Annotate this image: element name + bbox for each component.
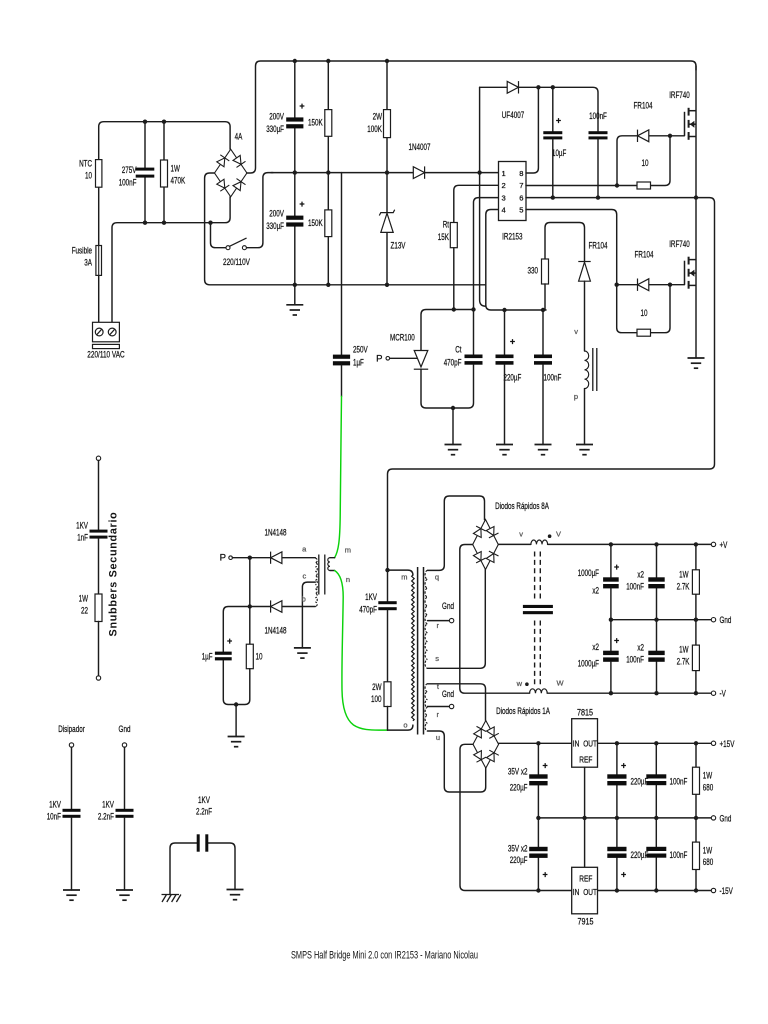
filter choke upper v-V [531, 540, 548, 544]
coupled choke core dashes lower [535, 621, 541, 688]
capacitor 200V 330uF lower [286, 216, 303, 227]
svg-text:10µF: 10µF [552, 148, 566, 159]
svg-text:35V x2: 35V x2 [508, 844, 528, 855]
regulator 7815 body [572, 719, 598, 768]
svg-text:200V: 200V [269, 209, 284, 220]
svg-text:v: v [574, 327, 578, 336]
svg-text:7915: 7915 [578, 917, 594, 928]
wire snubber bottom lead [98, 622, 100, 676]
svg-text:IRF740: IRF740 [669, 90, 690, 101]
svg-text:IN: IN [573, 739, 580, 748]
wire 35V cap upper leads [537, 743, 539, 818]
wire 150K upper top lead [327, 61, 329, 110]
svg-text:35V x2: 35V x2 [508, 767, 528, 778]
svg-text:b: b [302, 595, 306, 604]
svg-text:+: + [556, 116, 561, 126]
junction gate node high [668, 134, 672, 138]
svg-text:330µF: 330µF [266, 221, 284, 232]
svg-text:250V: 250V [353, 345, 368, 356]
svg-text:c: c [303, 572, 307, 581]
capacitor x2 100nF upper [648, 577, 664, 588]
wire feedback bottom loop [223, 660, 250, 704]
svg-text:1: 1 [502, 169, 506, 178]
wire IRF740 low vertical lead to ground [695, 198, 697, 358]
capacitor 10uF bootstrap [543, 131, 562, 139]
junction -V / 100nF [654, 691, 658, 695]
svg-text:220/110 VAC: 220/110 VAC [87, 350, 124, 361]
wire bridge left vertex down to negative bus rail [205, 173, 486, 285]
wire 100nF bottom lead to VS row [597, 139, 599, 197]
transistor IRF740 low side [685, 257, 697, 289]
wire 330uF upper bottom lead [294, 128, 296, 172]
coupled choke core dashes upper [535, 552, 541, 600]
resistor 2W 100 main snubber [384, 682, 391, 707]
wire primary ground stub [294, 285, 296, 305]
svg-text:2W: 2W [372, 682, 382, 693]
wire zener bottom lead [386, 233, 388, 285]
svg-text:10: 10 [256, 652, 263, 663]
svg-text:-15V: -15V [720, 886, 734, 897]
wire IRF740 high vertical drain-source lead [695, 66, 697, 198]
svg-text:OUT: OUT [583, 739, 597, 748]
wire 220uF lower leads [616, 818, 618, 891]
zener diode Z13V [379, 210, 394, 233]
wire low 10R loop [617, 285, 670, 333]
wire CT node horizontal [421, 310, 474, 351]
svg-text:1W: 1W [703, 771, 713, 782]
wire AC neutral: terminal-right up and along lower rail to bridge bottom [112, 197, 230, 322]
capacitor 250V 1uF [333, 355, 350, 366]
wire 150K lower bottom lead [327, 237, 329, 285]
wire 1uF bottom lead [341, 365, 343, 396]
svg-text:+: + [299, 199, 304, 209]
filter choke lower w-W [530, 689, 548, 693]
svg-text:2.2nF: 2.2nF [196, 807, 212, 818]
svg-text:+: + [542, 761, 547, 771]
svg-text:+: + [614, 636, 619, 646]
junction VS row / MOSFET source [694, 195, 698, 199]
svg-text:Z13V: Z13V [391, 241, 406, 252]
terminal snubber bottom [96, 676, 100, 680]
bridge rectifier Diodos Rapidos 1A [473, 721, 499, 769]
ground gnd-cap [116, 890, 133, 900]
wire aux Gnd rail [538, 817, 711, 819]
junction aux Gnd / 220uF [615, 816, 619, 820]
svg-text:1N4007: 1N4007 [409, 142, 431, 153]
switch lever 220/110V [230, 238, 247, 246]
resistor 10 high side [637, 182, 651, 189]
wire +V rail [548, 543, 712, 545]
terminal P [229, 556, 233, 560]
wire 2W100K bottom lead [386, 138, 388, 173]
junction +15 / 100nF [654, 741, 658, 745]
svg-text:1KV: 1KV [365, 592, 377, 603]
svg-text:5: 5 [519, 206, 523, 215]
svg-text:4A: 4A [235, 132, 243, 143]
svg-text:Fusible: Fusible [72, 246, 92, 257]
main secondary upper q-r-s [425, 570, 427, 668]
wire bootstrap/Vcc branch vertical down merging into COM bus [480, 87, 486, 306]
svg-text:+: + [227, 636, 232, 646]
junction top rail / 100nF [143, 120, 147, 124]
wire 100nF mid top lead [542, 310, 544, 355]
junction VB row / 10uF [551, 85, 555, 89]
wire 680 lower leads [695, 818, 697, 891]
junction CT node / Ct cap [471, 307, 475, 311]
terminal aux Gnd [711, 816, 715, 820]
wire capacitor midpoint rail / Vcc row to IC pin1 [271, 172, 499, 174]
resistor Rt 15K [450, 223, 457, 248]
svg-text:Diodos Rápidos 8A: Diodos Rápidos 8A [495, 501, 549, 512]
junction top rail / 150K upper [326, 59, 330, 63]
green wire from 1uF to drive transformer winding m-n top [335, 396, 342, 557]
wire -V rail [547, 692, 711, 694]
svg-text:-V: -V [720, 689, 727, 700]
transistor IRF740 high side [685, 108, 697, 140]
junction +V / 2.7K [694, 542, 698, 546]
wire 1A bridge left to -15V rail [460, 744, 711, 890]
diode FR104 high side [638, 130, 649, 142]
junction COM bus / 220uF [502, 308, 506, 312]
ground feedback [228, 737, 245, 747]
svg-text:p: p [574, 392, 578, 401]
drive transformer primary winding v-p [585, 351, 589, 389]
svg-text:v: v [519, 530, 523, 539]
junction VS row / 10uF return [551, 195, 555, 199]
svg-text:2.7K: 2.7K [677, 582, 690, 593]
svg-text:8: 8 [519, 169, 523, 178]
chassis ground hatched [162, 895, 181, 903]
drive transformer winding a-c-b [315, 558, 317, 606]
svg-text:680: 680 [703, 857, 714, 868]
wire 100nF lower aux leads [655, 818, 657, 891]
wire 150K upper bottom lead [327, 136, 329, 172]
capacitor 35V x2 220uF lower [529, 847, 547, 858]
resistor 10 feedback [246, 644, 253, 669]
svg-text:2.2nF: 2.2nF [98, 812, 114, 823]
capacitor 1KV 470pF main snubber [378, 601, 396, 610]
wire pin2 RT to Rt resistor [454, 185, 499, 222]
capacitor x2 100nF lower [648, 651, 664, 662]
svg-text:x2: x2 [592, 586, 599, 597]
wire disipador cap top lead [71, 747, 73, 809]
drive transformer core [593, 348, 597, 391]
svg-text:2W: 2W [373, 112, 383, 123]
svg-text:Snubbers Secundario: Snubbers Secundario [108, 512, 120, 637]
junction HO row / FR104 branch [615, 183, 619, 187]
junction lower rail / switch branch [208, 221, 212, 225]
wire winding n stub [330, 570, 335, 572]
junction bottom rail / 150K lower [326, 283, 330, 287]
svg-text:100nF: 100nF [670, 850, 688, 861]
wire NTC/fuse column down to terminal block [98, 187, 100, 322]
wire Ct bottom / MCR cathode loop [421, 365, 474, 408]
resistor 1W 680 lower [693, 842, 700, 869]
wire tap t to 1A bridge top [428, 684, 486, 721]
IC IR2153 body [499, 162, 527, 221]
junction P row [248, 556, 252, 560]
wire 150K lower top lead [327, 173, 329, 210]
terminal +15V [711, 741, 715, 745]
svg-text:SMPS Half Bridge Mini 2.0 con: SMPS Half Bridge Mini 2.0 con IR2153 - M… [291, 950, 478, 962]
junction +15 / 680R [694, 741, 698, 745]
phasing dot lower choke [525, 682, 529, 686]
wire 330uF upper top lead [294, 61, 296, 117]
wire feedback ground stub [235, 705, 237, 737]
resistor 1W 470K [161, 160, 168, 187]
svg-text:+V: +V [720, 540, 728, 551]
main transformer T1 core [418, 567, 424, 735]
terminal Gnd secondary lower [449, 704, 453, 708]
svg-text:m: m [401, 573, 407, 582]
wire drive winding p to ground [584, 389, 586, 445]
junction Gnd mid rail / REF [582, 816, 586, 820]
diode 1N4148 lower [271, 600, 282, 612]
svg-text:10nF: 10nF [47, 812, 61, 823]
wire resistor 470K bottom lead [163, 187, 165, 223]
bridge rectifier 4A [215, 149, 247, 197]
junction -15 / 35V cap [536, 888, 540, 892]
svg-text:220µF: 220µF [510, 855, 528, 866]
svg-text:22: 22 [81, 606, 88, 617]
wire 1000uF upper bottom lead [610, 588, 612, 619]
junction VS row / 100nF return [596, 195, 600, 199]
svg-text:FR104: FR104 [635, 250, 654, 261]
svg-text:1µF: 1µF [353, 358, 364, 369]
wire switch right contact up to capacitor midpoint rail [247, 173, 273, 248]
svg-text:470pF: 470pF [444, 358, 462, 369]
junction Gnd rail / 100nF [654, 618, 658, 622]
ground of timing network [445, 445, 462, 455]
svg-text:Gnd: Gnd [442, 601, 454, 612]
ground drive winding [576, 445, 593, 455]
svg-text:100nF: 100nF [626, 582, 644, 593]
wire gnd cap bottom lead [124, 818, 126, 890]
junction top rail / 330uF upper [293, 59, 297, 63]
wire 100nF upper aux leads [655, 743, 657, 818]
wire branch to main primary m [388, 570, 413, 575]
wire 100nF upper leads [656, 544, 658, 619]
junction COM bus / 100nF [541, 308, 545, 312]
wire ground stub below MCR loop [452, 408, 454, 445]
wire tap r lower to Gnd terminal [428, 706, 450, 708]
wire 100nF lower leads [656, 620, 658, 694]
terminal P gate trigger [386, 357, 390, 361]
svg-text:q: q [435, 573, 439, 582]
svg-text:150K: 150K [308, 218, 323, 229]
svg-text:+: + [299, 101, 304, 111]
wire 1000uF lower top lead [610, 620, 612, 651]
wire branch from midpoint rail down to 1uF 250V [341, 173, 343, 355]
wire snubber resistor bottom [387, 707, 389, 731]
svg-text:+: + [542, 870, 547, 880]
wire FR104 anode down to drive winding v [584, 281, 586, 351]
capacitor 100nF bootstrap [589, 131, 608, 139]
capacitor 220uF oscillator supply [496, 355, 514, 365]
resistor 10 low side [637, 329, 651, 336]
wire snubber cap lead [98, 461, 100, 530]
wire 1A bridge right to +15V rail [499, 742, 712, 744]
wire main primary o lead [388, 725, 413, 730]
svg-text:Gnd: Gnd [442, 689, 454, 700]
svg-text:100K: 100K [367, 124, 382, 135]
wire VB row with UF4007 [480, 87, 598, 131]
junction VB row / pin8 [536, 85, 540, 89]
junction aux Gnd / 35V cap [536, 816, 540, 820]
wire 1000uF upper top lead [610, 544, 612, 577]
svg-text:220µF: 220µF [504, 373, 522, 384]
svg-text:IN: IN [573, 888, 580, 897]
capacitor between filter rails [523, 605, 553, 614]
main transformer primary winding m-o [412, 575, 415, 721]
wire horizontal cap right lead [207, 843, 235, 890]
wire 10uF bottom lead to VS row [552, 139, 554, 197]
svg-text:OUT: OUT [583, 888, 597, 897]
wire REF vertical 7815-7915 [584, 767, 586, 867]
wire secondary Gnd rail [611, 619, 711, 621]
svg-text:6: 6 [519, 193, 523, 202]
svg-text:x2: x2 [637, 570, 644, 581]
svg-text:s: s [435, 654, 439, 663]
capacitor Ct 470pF [465, 355, 483, 365]
svg-text:470K: 470K [171, 176, 186, 187]
svg-text:1KV: 1KV [49, 800, 61, 811]
wire cap 275V bottom lead [144, 178, 146, 223]
resistor 1W 22 snubber [95, 594, 102, 622]
diode 1N4007 [413, 166, 424, 178]
wire 220uF bottom lead [504, 365, 506, 445]
svg-text:+: + [614, 562, 619, 572]
svg-text:100: 100 [371, 694, 382, 705]
svg-text:FR104: FR104 [634, 101, 653, 112]
svg-text:1nF: 1nF [77, 533, 88, 544]
switch contact right [242, 246, 246, 250]
wire snubber column cap top lead [387, 570, 389, 601]
svg-text:3A: 3A [84, 258, 92, 269]
svg-text:1W: 1W [679, 645, 689, 656]
wire 1000uF lower bottom lead [610, 662, 612, 693]
svg-text:x2: x2 [592, 642, 599, 653]
svg-text:1000µF: 1000µF [578, 659, 599, 670]
junction gate node low [668, 283, 672, 287]
svg-text:1KV: 1KV [102, 800, 114, 811]
wire vertical P node down [249, 558, 251, 645]
terminal Gnd cap [122, 743, 126, 747]
svg-text:100nF: 100nF [589, 111, 607, 122]
svg-text:NTC: NTC [79, 159, 92, 170]
junction -15 / 100nF [654, 888, 658, 892]
svg-text:200V: 200V [269, 112, 284, 123]
wire winding m stub [330, 557, 335, 559]
wire 680 upper leads [695, 743, 697, 818]
svg-text:1000µF: 1000µF [578, 568, 599, 579]
svg-text:100nF: 100nF [544, 373, 562, 384]
svg-text:10: 10 [641, 308, 648, 319]
resistor 2W 100K [384, 110, 391, 138]
svg-text:2.7K: 2.7K [677, 657, 690, 668]
svg-text:FR104: FR104 [589, 241, 608, 252]
junction +15 / 220uF [615, 741, 619, 745]
svg-text:100nF: 100nF [670, 777, 688, 788]
svg-text:150K: 150K [308, 118, 323, 129]
drive transformer T2 core [319, 555, 325, 595]
svg-text:Gnd: Gnd [720, 813, 732, 824]
wire lower rail to switch left contact [211, 223, 226, 248]
capacitor 1KV 1nF snubber [90, 530, 108, 539]
junction +15 / 35V cap [536, 741, 540, 745]
diode FR104 mid [578, 262, 590, 282]
wire 330 bottom to COM bus [544, 284, 546, 310]
wire 8A bridge right to +V rail [498, 543, 531, 545]
junction lower rail / 470K [162, 221, 166, 225]
capacitor 1uF feedback [215, 652, 232, 661]
wire 100nF bottom lead [542, 365, 544, 445]
svg-text:P: P [220, 553, 226, 564]
wire P row through 1N4148 to winding a [232, 557, 315, 559]
wire tap u routed to 1A bridge bottom [428, 731, 486, 792]
resistor 1W 680 upper [693, 767, 700, 794]
wire winding tap c to ground [302, 582, 315, 648]
terminal block 220/110 VAC [93, 322, 120, 348]
svg-text:Rt: Rt [443, 220, 450, 231]
svg-text:Ct: Ct [455, 345, 462, 356]
svg-text:1µF: 1µF [202, 652, 213, 663]
svg-text:100nF: 100nF [119, 178, 137, 189]
phasing dot upper choke [548, 534, 552, 538]
svg-text:V: V [556, 530, 561, 539]
svg-text:P: P [376, 353, 382, 364]
terminal snubber top [96, 456, 100, 460]
svg-text:10: 10 [85, 171, 92, 182]
junction +V / 100nF [654, 542, 658, 546]
svg-text:220µF: 220µF [510, 783, 528, 794]
svg-text:Disipador: Disipador [58, 724, 85, 735]
svg-text:1KV: 1KV [76, 521, 88, 532]
svg-text:x2: x2 [637, 643, 644, 654]
svg-text:+: + [510, 337, 515, 347]
wire bridge right vertex up to +310V top rail and across to MOSFET drain [247, 61, 696, 173]
svg-text:220µF: 220µF [631, 850, 649, 861]
ground low side source [688, 358, 705, 368]
ground winding c [294, 648, 311, 658]
svg-text:REF: REF [579, 756, 592, 765]
junction bottom rail / 330uF lower [293, 283, 297, 287]
resistor 150K upper [325, 110, 332, 137]
wire low gate row with FR104 [617, 284, 685, 286]
capacitor 1KV 10nF [63, 809, 81, 818]
junction Gnd rail / 1000uF [609, 618, 613, 622]
svg-text:100nF: 100nF [626, 655, 644, 666]
wire lower diode row to winding b [250, 606, 315, 608]
wire pin8 VB up to bootstrap row [526, 87, 538, 173]
diode UF4007 [507, 81, 518, 93]
ground right of horizontal cap [227, 890, 244, 900]
svg-text:MCR100: MCR100 [390, 333, 415, 344]
svg-text:+: + [621, 870, 626, 880]
svg-text:2: 2 [502, 181, 506, 190]
svg-text:REF: REF [579, 875, 592, 884]
wire MCR100 gate [390, 357, 417, 359]
resistor 150K lower [325, 210, 332, 237]
junction lower rail / 100nF [143, 221, 147, 225]
drive transformer winding m-n [328, 558, 330, 571]
resistor 1W 2.7K lower [692, 645, 699, 671]
svg-text:UF4007: UF4007 [502, 110, 524, 121]
wire 330R/FR104 top loop [545, 223, 585, 262]
svg-text:1N4148: 1N4148 [265, 528, 287, 539]
bridge rectifier Diodos Rapidos 8A [473, 520, 499, 570]
junction lower diode row [248, 604, 252, 608]
